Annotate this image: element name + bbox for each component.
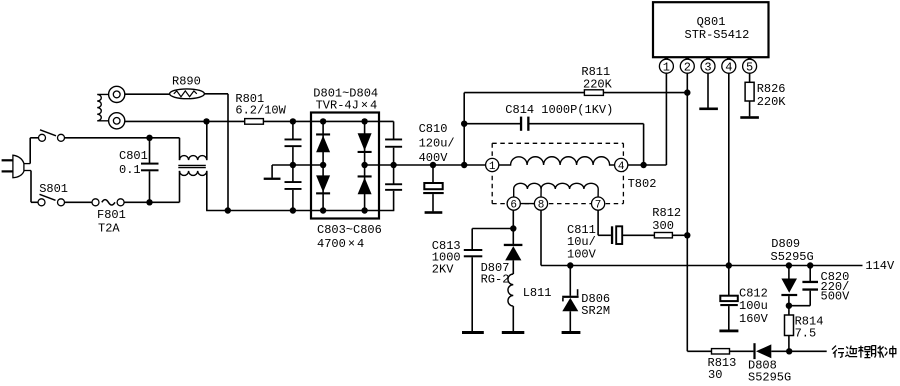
node R812 pin2 — [684, 232, 690, 238]
switch S801 bottom pole — [38, 199, 45, 206]
wire top connector to R890 — [125, 93, 170, 95]
resistor R813 — [712, 349, 730, 354]
capacitor C803 — [292, 121, 294, 139]
svg-text:RG-2: RG-2 — [481, 273, 510, 287]
wire bottom connector to bridge — [125, 120, 312, 122]
svg-text:30: 30 — [708, 368, 722, 382]
svg-text:1: 1 — [489, 161, 496, 173]
choke bottom winding — [179, 171, 181, 202]
wire plug to switches — [29, 138, 31, 164]
svg-text:7: 7 — [595, 200, 602, 212]
bottom AC rail — [206, 210, 394, 212]
Q801 pin 2 — [680, 59, 694, 73]
IC Q801 STR-S5412 — [653, 2, 769, 57]
svg-text:3: 3 — [704, 61, 711, 75]
svg-text:Q801: Q801 — [697, 15, 726, 29]
wire fuse to choke — [124, 201, 179, 203]
capacitor C820 — [809, 266, 811, 282]
svg-text:R890: R890 — [172, 75, 201, 89]
svg-text:L811: L811 — [523, 286, 552, 300]
svg-text:100u: 100u — [739, 299, 768, 313]
node D806 — [567, 262, 573, 268]
114V rail — [541, 265, 863, 267]
svg-text:C803~C806: C803~C806 — [317, 223, 382, 237]
node C820 top — [807, 262, 813, 268]
diode D804 — [358, 175, 372, 177]
svg-text:C801: C801 — [119, 149, 148, 163]
node R814 bottom — [786, 348, 792, 354]
wire to C813 — [472, 228, 513, 230]
node R814 top — [786, 303, 792, 309]
diode D802 — [316, 175, 330, 192]
degauss coil winding — [97, 94, 108, 120]
node bridge AC2 — [361, 162, 367, 168]
node bridge mid left — [290, 162, 296, 168]
capacitor C805 — [393, 121, 395, 139]
svg-text:T2A: T2A — [98, 222, 120, 236]
diode bridge box D801~D804 — [311, 113, 379, 219]
T802 pin 1 — [486, 158, 499, 171]
diode D807 — [512, 229, 514, 245]
svg-text:S5295G: S5295G — [771, 250, 814, 264]
node snubber rail — [461, 162, 467, 168]
diode D803 — [358, 133, 372, 150]
ground D806 — [562, 331, 581, 334]
Q801 pin 1 — [659, 59, 673, 73]
capacitor C801 — [149, 138, 151, 163]
svg-text:6.2/10W: 6.2/10W — [235, 103, 286, 117]
svg-text:300: 300 — [652, 219, 674, 233]
fuse F801 — [92, 199, 99, 206]
node bridge bottom left — [290, 207, 296, 213]
wire pin2 down — [686, 73, 688, 351]
switch S801 top pole — [39, 134, 46, 141]
svg-text:100V: 100V — [567, 247, 597, 261]
ground L811 — [502, 331, 525, 334]
wire pin2 to R813 — [687, 350, 711, 352]
capacitor C806 — [393, 165, 395, 184]
node bridge AC1 — [320, 162, 326, 168]
T802 pin 7 — [592, 197, 605, 210]
svg-text:2: 2 — [684, 61, 691, 75]
choke core — [178, 164, 206, 166]
T802 pin 4 — [615, 158, 628, 171]
inductor L811 — [508, 274, 513, 306]
node C814 right — [640, 162, 646, 168]
node D803 top — [361, 118, 367, 124]
svg-text:S5295G: S5295G — [748, 371, 791, 385]
node C810 — [430, 162, 436, 168]
node bridge top left — [290, 118, 296, 124]
svg-text:220K: 220K — [583, 77, 613, 91]
wire bottom switch to fuse — [65, 201, 93, 203]
node R811 to pin2 — [684, 89, 690, 95]
svg-text:R812: R812 — [652, 206, 681, 220]
wire top switch to choke — [65, 137, 180, 139]
wire pins 6-8 — [514, 203, 541, 205]
wire pin7 down — [597, 210, 599, 235]
svg-text:500V: 500V — [821, 290, 851, 304]
capacitor C813 — [471, 229, 473, 250]
svg-text:4: 4 — [725, 61, 732, 75]
node pin4 114V — [726, 262, 732, 268]
resistor R826 — [749, 73, 751, 82]
Q801 pin stubs — [665, 57, 669, 59]
node D801 top — [320, 118, 326, 124]
svg-text:SR2M: SR2M — [581, 304, 610, 318]
svg-text:2KV: 2KV — [432, 263, 454, 277]
wire pin4 down — [728, 73, 730, 266]
svg-text:5: 5 — [746, 61, 753, 75]
svg-text:R826: R826 — [757, 82, 786, 96]
wire pin1 to T802 pin4 — [665, 73, 667, 165]
wire bridge top line — [312, 120, 394, 122]
svg-text:4700×4: 4700×4 — [317, 237, 364, 251]
Q801 pin 5 — [743, 59, 757, 73]
svg-text:0.1: 0.1 — [119, 163, 141, 177]
wire pin8 down — [540, 210, 542, 265]
diode D809 — [788, 266, 790, 279]
svg-text:C814 1000P(1KV): C814 1000P(1KV) — [505, 103, 613, 117]
svg-text:1: 1 — [663, 61, 670, 75]
T802 primary winding — [499, 157, 615, 165]
resistor R801 — [245, 119, 264, 125]
posistor R890 — [170, 89, 205, 99]
svg-text:STR-S5412: STR-S5412 — [685, 28, 750, 42]
chassis ground stub — [271, 165, 273, 178]
svg-text:114V: 114V — [865, 259, 895, 273]
T802 pin 8 — [534, 197, 547, 210]
diode D808 — [753, 343, 755, 359]
wire pin6 down — [512, 210, 514, 228]
zener diode D806 — [569, 266, 571, 296]
svg-text:C810: C810 — [419, 122, 448, 136]
label flyback pulse (Chinese) — [832, 346, 896, 358]
wire R890 to bottom rail — [204, 93, 228, 95]
node snubber top — [461, 121, 467, 127]
svg-text:S801: S801 — [39, 182, 68, 196]
wire bridge right column — [364, 121, 366, 210]
svg-text:160V: 160V — [739, 312, 769, 326]
ground R826 — [740, 116, 759, 119]
choke top winding — [179, 138, 181, 160]
node R890 bottom rail — [225, 207, 231, 213]
node D809 top — [786, 262, 792, 268]
resistor R811 — [584, 90, 603, 96]
AC plug P801 — [2, 159, 13, 161]
capacitor C804 — [292, 165, 294, 182]
svg-text:T802: T802 — [628, 177, 657, 191]
capacitor C814 — [464, 123, 520, 125]
resistor R811 line — [464, 92, 687, 94]
capacitor C811 — [611, 226, 613, 244]
svg-text:6: 6 — [510, 200, 517, 212]
svg-text:8: 8 — [538, 200, 545, 212]
node C806 top — [390, 162, 396, 168]
degauss coil connector top — [109, 86, 125, 102]
ground C810 — [425, 211, 443, 214]
capacitor C810 — [432, 165, 434, 183]
svg-text:7.5: 7.5 — [795, 326, 817, 340]
node D804 bottom — [361, 207, 367, 213]
diode D801 — [316, 133, 330, 135]
node choke top right — [203, 118, 209, 124]
wire bridge left column — [322, 121, 324, 210]
T802 pin 6 — [507, 197, 520, 210]
wire pin3 ground — [707, 73, 709, 108]
wire snubber left leg — [463, 93, 465, 165]
resistor R814 — [788, 306, 790, 315]
ground C812 — [719, 330, 738, 333]
node D802 bottom — [320, 207, 326, 213]
Q801 pin 4 — [722, 59, 736, 73]
bridge mid left line — [272, 164, 323, 166]
ground C813 — [462, 331, 484, 334]
transformer T802 dashed box — [492, 142, 623, 144]
Q801 pin 3 — [701, 59, 715, 73]
T802 secondary winding — [514, 183, 541, 197]
node C801 top — [146, 135, 152, 141]
resistor R812 — [654, 233, 672, 238]
bridge mid right line / main rail — [365, 164, 486, 166]
node C801 bottom — [146, 199, 152, 205]
svg-text:120u/: 120u/ — [419, 136, 455, 150]
degauss coil connector bottom — [109, 113, 125, 129]
svg-text:4: 4 — [618, 161, 625, 173]
capacitor C812 — [728, 266, 730, 296]
node pin6 — [510, 225, 516, 231]
svg-text:F801: F801 — [97, 208, 126, 222]
svg-text:220K: 220K — [757, 95, 787, 109]
svg-text:TVR-4J×4: TVR-4J×4 — [316, 98, 378, 112]
